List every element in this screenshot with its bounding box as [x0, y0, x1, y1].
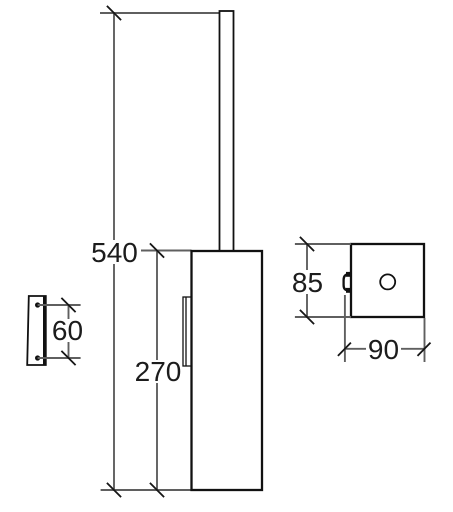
tick 540 bottom — [107, 483, 121, 497]
wall bracket plate — [27, 296, 46, 365]
holder body — [192, 251, 263, 490]
dimension line 90 — [345, 348, 425, 350]
svg-text:270: 270 — [135, 356, 182, 387]
dimension line 270 — [156, 251, 158, 491]
extension line 60 bottom — [38, 357, 81, 359]
tick 85 bottom — [300, 310, 314, 324]
tick 90 left — [338, 343, 351, 356]
label 85 — [292, 267, 323, 298]
label 540 — [90, 237, 139, 268]
svg-text:85: 85 — [292, 267, 323, 298]
brush hole circle — [380, 274, 395, 289]
dimension line 540 — [113, 13, 115, 490]
svg-text:60: 60 — [52, 315, 83, 346]
tick 60 bottom — [61, 351, 75, 365]
screw hole top — [35, 302, 40, 307]
extension line 60 top — [38, 304, 81, 306]
extension line 90 right — [424, 318, 426, 362]
svg-text:540: 540 — [91, 237, 138, 268]
extension line top of 270 — [141, 250, 192, 252]
wall clip profile — [344, 272, 351, 293]
extension line 85 bottom — [295, 316, 351, 318]
tick 540 top — [107, 6, 121, 20]
tick 270 top — [150, 243, 164, 257]
top view square — [351, 244, 424, 317]
extension line bottom shared — [101, 489, 192, 491]
tick 90 right — [418, 343, 431, 356]
screw hole bottom — [35, 355, 40, 360]
extension line 90 left — [344, 295, 346, 362]
svg-text:90: 90 — [368, 334, 399, 365]
tick 60 top — [61, 298, 75, 312]
extension line top of 540 — [100, 12, 220, 14]
dimension line 85 — [306, 244, 308, 317]
label 270 — [135, 356, 182, 387]
dimension line 60 — [68, 305, 70, 358]
door handle detail — [183, 297, 192, 366]
tick 85 top — [300, 237, 314, 251]
label 90 — [366, 334, 401, 365]
extension line 85 top — [295, 243, 351, 245]
tick 270 bottom — [150, 483, 164, 497]
label 60 — [52, 315, 83, 346]
brush handle — [220, 11, 234, 251]
